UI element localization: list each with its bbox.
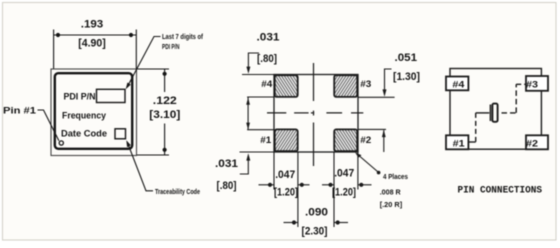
package outer rect [51,69,137,156]
svg-text:.031: .031 [215,158,238,170]
wire to pad3 dashed [516,83,526,85]
dim .051 [1.30] right [358,96,395,98]
svg-text:.008 R: .008 R [380,187,401,196]
dimension .193 [4.90] [53,30,55,69]
top edge extension [242,74,274,76]
inner gap dimension (unlabeled double arrow) [247,96,274,98]
svg-text:.090: .090 [305,207,328,219]
leader traceability [128,143,153,191]
leader for last-7-digits [127,37,160,88]
crystal left plate [489,105,491,122]
svg-text:.122: .122 [153,95,177,107]
bottom pad height bracket (right of #2) [358,128,386,130]
pad #4 (hatched) [275,75,298,97]
svg-text:Traceability Code: Traceability Code [155,187,200,196]
dimension .122 [3.10] [137,68,169,70]
wire pad1 horizontal dash [469,141,476,143]
svg-text:#2: #2 [360,135,371,146]
pad #1 [446,135,468,149]
svg-text:#1: #1 [453,138,466,149]
package inner body [55,73,132,149]
svg-text:#1: #1 [260,135,272,146]
Pin #1 leader [38,110,59,141]
svg-text:[1.20]: [1.20] [274,187,298,199]
svg-text:#3: #3 [526,80,538,91]
svg-text:[3.10]: [3.10] [149,109,180,121]
traceability box [115,129,126,139]
pad #4 [446,77,468,91]
pad #1 (hatched) [275,129,298,151]
svg-text:4 Places: 4 Places [383,172,408,181]
dim .031 [.80] bottom-left [240,158,249,174]
crystal body [492,104,497,122]
pad #3 [526,76,548,91]
wire left vertical dashed [475,113,477,142]
pin 1 index circle [59,141,63,145]
svg-text:.047: .047 [275,169,295,181]
wire right vertical dashed [515,84,517,113]
svg-text:[.80]: [.80] [257,53,277,65]
svg-text:[4.90]: [4.90] [78,38,106,50]
svg-text:PDI P/N: PDI P/N [64,92,96,103]
svg-text:.047: .047 [334,168,354,180]
dim .090 [2.30] [284,222,298,224]
extension lines below [274,152,358,227]
pad #2 (hatched) [334,129,357,151]
svg-text:.051: .051 [395,52,418,64]
svg-text:[1.20]: [1.20] [332,187,356,199]
outline rect [450,69,541,150]
pad #2 [526,135,548,149]
vertical centerline [313,63,315,166]
bottom edge extension [240,151,275,153]
dim .047 [1.20] left [259,184,275,186]
footprint outline [274,75,358,153]
svg-text:#4: #4 [452,80,465,91]
svg-text:Pin #1: Pin #1 [3,106,37,117]
svg-text:[.20 R]: [.20 R] [380,200,403,209]
svg-text:PIN CONNECTIONS: PIN CONNECTIONS [458,186,543,197]
svg-text:.031: .031 [257,32,280,44]
svg-text:.193: .193 [81,19,104,31]
svg-text:[.80]: [.80] [217,180,237,192]
P/N blank box [97,89,126,102]
svg-text:#2: #2 [526,138,538,149]
pad #3 (hatched) [334,75,357,97]
svg-text:PDI P/N: PDI P/N [162,42,180,51]
wire right dashed [499,112,517,114]
dim .047 [1.20] right [322,184,334,186]
svg-text:#4: #4 [261,79,273,90]
svg-text:#3: #3 [360,79,371,90]
horizontal centerline [267,112,363,114]
svg-text:[1.30]: [1.30] [393,71,420,83]
dim .031 [.80] top-left [248,53,259,69]
svg-text:Date Code: Date Code [61,129,107,140]
svg-text:Frequency: Frequency [62,111,107,122]
note: 4 Places .008 R [.20 R] [357,154,378,172]
svg-text:Last 7 digits of: Last 7 digits of [162,32,203,41]
svg-text:[2.30]: [2.30] [302,226,328,238]
wire left solid [476,112,490,114]
